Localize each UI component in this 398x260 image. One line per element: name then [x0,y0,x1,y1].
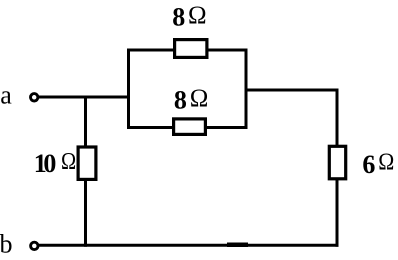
wire: right branch vertical upper [336,89,339,149]
wire: bottom rail thick overlap segment [227,243,248,248]
svg-text:Ω: Ω [190,85,209,112]
wire: parallel block right vertical [245,49,248,130]
wire: parallel block to right branch [245,89,339,92]
svg-text:0: 0 [43,149,56,178]
svg-text:a: a [0,81,12,110]
svg-text:8: 8 [174,86,187,115]
resistor R1 8 ohm (top) [175,40,207,58]
svg-text:Ω: Ω [61,148,76,175]
wire: parallel block bottom rail [127,126,248,129]
resistor R2 8 ohm (middle) [174,119,206,134]
wire: parallel block left vertical [127,49,130,130]
wire: 10 ohm branch upper segment [84,96,87,149]
terminal a [31,94,38,101]
svg-text:6: 6 [362,150,375,179]
resistor R4 6 ohm (right) [329,146,345,179]
wire: 10 ohm branch lower segment [84,178,87,247]
resistor R3 10 ohm (left) [78,147,96,179]
svg-text:Ω: Ω [188,2,207,29]
svg-text:8: 8 [172,3,185,32]
terminal b [31,242,38,249]
wire: right branch vertical lower [336,178,339,247]
wire: bottom rail b to right branch [39,244,339,247]
wire: parallel block top rail [127,49,248,52]
svg-text:Ω: Ω [378,148,394,174]
wire: terminal a to parallel block [39,96,131,99]
svg-text:b: b [0,229,13,258]
